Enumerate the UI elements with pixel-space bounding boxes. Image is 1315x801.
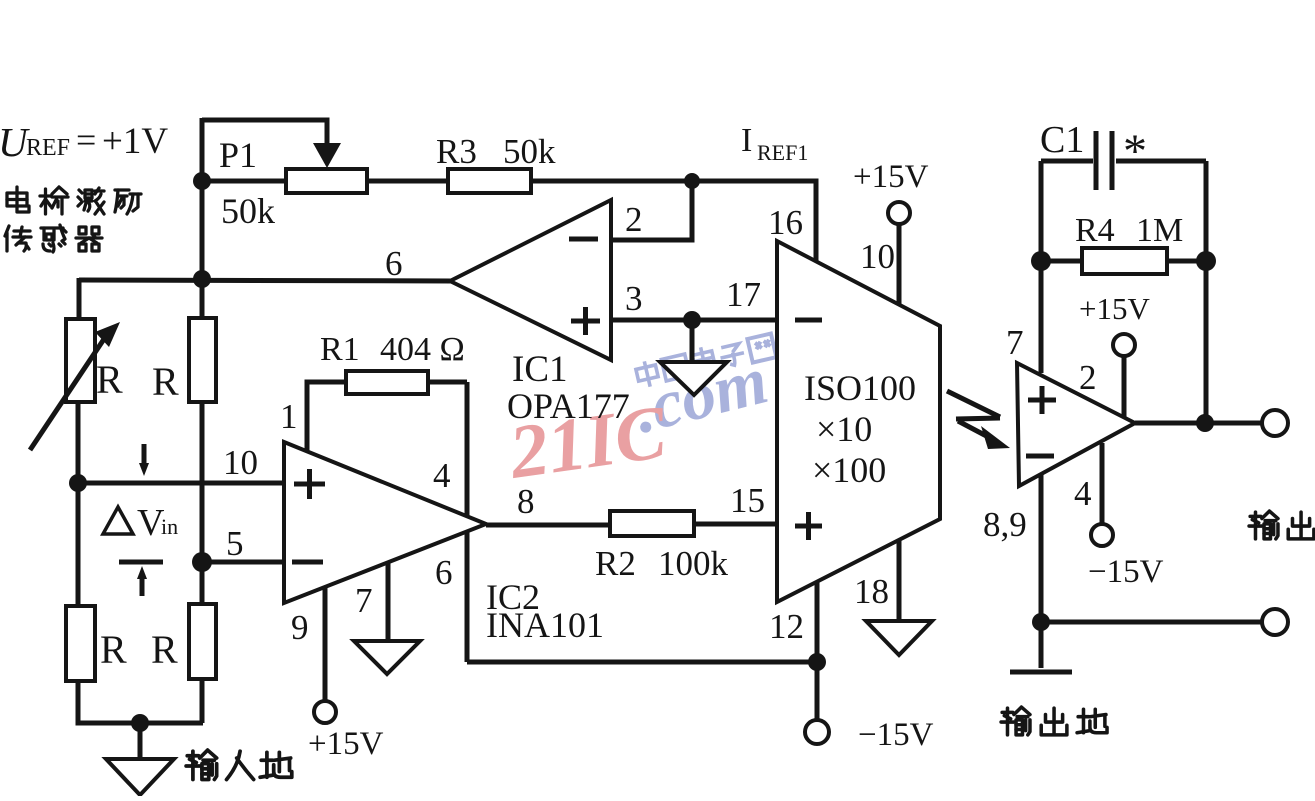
- node pin 3 ground junction: [683, 311, 701, 329]
- svg-text:7: 7: [355, 581, 373, 620]
- +15V terminal circle for ISO100 pin 10: [888, 202, 910, 224]
- svg-text:R4: R4: [1075, 212, 1115, 249]
- svg-text:404 Ω: 404 Ω: [380, 331, 465, 368]
- wire right feedback vertical to output node: [1204, 161, 1209, 423]
- svg-text:9: 9: [291, 608, 309, 647]
- wire IC2 pin 7 to ground: [386, 562, 391, 641]
- wire left bridge leg: [76, 402, 81, 607]
- svg-text:+15V: +15V: [308, 726, 384, 762]
- svg-text:=: =: [76, 120, 96, 160]
- svg-text:×10: ×10: [816, 409, 872, 449]
- wire C1 left lead: [1041, 159, 1093, 164]
- wire IC1 pin 3 to ISO100 pin 17: [611, 318, 778, 323]
- svg-text:6: 6: [385, 244, 403, 283]
- svg-text:4: 4: [433, 456, 451, 495]
- svg-text:OPA177: OPA177: [507, 386, 630, 426]
- wire +15V terminal to ISO100 pin 10: [897, 225, 902, 306]
- capacitor C1 plates: [1096, 131, 1112, 190]
- svg-text:8: 8: [517, 482, 535, 521]
- resistor R1 body: [346, 371, 428, 394]
- input ground symbol: [106, 759, 174, 795]
- wire top loop from UREF node to potentiometer arrow: [202, 120, 327, 146]
- wire ground stub at pin 3 node: [690, 320, 695, 362]
- wire mid rail left corner down to variable resistor: [77, 278, 82, 322]
- svg-text:R2: R2: [595, 544, 636, 583]
- svg-text:R: R: [96, 357, 123, 402]
- node UREF at potentiometer rail: [193, 172, 211, 190]
- svg-text:REF1: REF1: [757, 140, 808, 165]
- ground symbol at IC2 pin 7: [354, 641, 420, 674]
- wire ISO100 pin 18 to ground: [897, 538, 902, 621]
- node R4 rail left: [1031, 251, 1051, 271]
- node input ground junction: [131, 714, 149, 732]
- bridge resistor top right body: [189, 318, 216, 402]
- wire right bridge leg lower: [200, 679, 205, 723]
- svg-text:4: 4: [1074, 474, 1092, 513]
- svg-text:+1V: +1V: [102, 121, 168, 162]
- resistor R2 body: [610, 511, 694, 536]
- svg-text:in: in: [161, 514, 178, 539]
- svg-text:50k: 50k: [221, 191, 275, 231]
- svg-text:R1: R1: [320, 331, 360, 368]
- wire IC2 output pin 8 to R2: [486, 523, 610, 528]
- wire bottom rail IC2 to ISO100 pin 12 node: [467, 660, 817, 665]
- output op-amp triangle: [1017, 363, 1135, 486]
- svg-text:−15V: −15V: [858, 717, 934, 753]
- svg-text:R3: R3: [436, 132, 477, 171]
- output terminal circle top: [1262, 410, 1288, 436]
- label chuanganqi (sensor): [5, 226, 31, 251]
- bridge variable resistor arrow: [30, 333, 108, 450]
- svg-text:15: 15: [730, 481, 765, 520]
- wire +15V terminal to op-amp pin 2: [1122, 357, 1127, 417]
- svg-text:8,9: 8,9: [983, 505, 1027, 544]
- delta-Vin down arrow: [142, 444, 147, 466]
- wire R1 right lead down to bottom rail: [465, 382, 470, 662]
- svg-text:18: 18: [854, 572, 889, 611]
- op-amp IC2 INA101 triangle: [284, 442, 486, 603]
- svg-text:7: 7: [1006, 323, 1024, 362]
- wire left feedback vertical to op-amp pin 7: [1039, 161, 1044, 373]
- op-amp IC2 minus input mark: [292, 560, 323, 565]
- svg-text:100k: 100k: [658, 544, 729, 583]
- wire R3 to corner and down to ISO100 pin 16: [531, 181, 816, 264]
- wire pot rail segment left: [202, 179, 286, 184]
- svg-text:10: 10: [223, 443, 258, 482]
- op-amp IC1 plus input mark: [571, 307, 600, 335]
- resistor R3 body: [448, 169, 531, 193]
- wire R1 left lead to IC2 pin 1: [307, 382, 346, 452]
- output terminal circle bottom: [1262, 609, 1288, 635]
- bridge resistor bottom right body: [189, 604, 216, 679]
- wire C1 right lead: [1116, 159, 1206, 164]
- node mid rail: [193, 270, 211, 288]
- wire pot to R3: [367, 179, 448, 184]
- svg-text:INA101: INA101: [486, 605, 604, 645]
- op-amp IC2 plus input mark: [294, 469, 325, 499]
- wire op-amp pins 8,9 down to output ground: [1039, 473, 1044, 668]
- +15V terminal circle at output op-amp pin 2: [1113, 334, 1135, 356]
- optocoupler light arrows between ISO100 and output op-amp: [947, 391, 1000, 417]
- svg-text:+15V: +15V: [1079, 291, 1150, 326]
- resistor R4 body: [1082, 248, 1167, 274]
- svg-text:50k: 50k: [503, 132, 556, 171]
- node bridge left output: [69, 474, 87, 492]
- node R4 rail right: [1196, 251, 1216, 271]
- wire R4 rail right: [1167, 259, 1206, 264]
- label delta Vin: [103, 507, 133, 534]
- svg-text:+15V: +15V: [853, 159, 929, 195]
- label shuchu (output): [1249, 511, 1278, 539]
- svg-text:12: 12: [769, 607, 804, 646]
- wire left vertical UREF rail: [200, 118, 205, 280]
- wire right bridge leg middle: [200, 402, 205, 605]
- +15V terminal circle at IC2 pin 9: [314, 701, 336, 723]
- delta-Vin up arrow: [140, 576, 145, 596]
- node bridge right output: [192, 552, 212, 572]
- wire left bridge leg lower: [78, 681, 203, 723]
- potentiometer P1 wiper arrow: [313, 143, 341, 168]
- wire op-amp pin 4 to -15V terminal: [1100, 443, 1105, 523]
- -15V terminal circle at ISO100 pin 12 rail: [805, 720, 829, 744]
- svg-text:×100: ×100: [812, 450, 886, 490]
- wire R2 to ISO100 pin 15: [694, 522, 778, 527]
- wire input ground stub: [138, 723, 143, 759]
- bridge resistor bottom left body: [66, 606, 95, 681]
- svg-text:5: 5: [226, 524, 244, 563]
- wire right bridge leg upper: [200, 278, 205, 319]
- node bottom rail -15V junction: [808, 653, 826, 671]
- svg-text:I: I: [741, 122, 752, 159]
- svg-text:R: R: [152, 359, 179, 404]
- ISO100 plus input mark: [795, 512, 822, 540]
- ISO100 minus input mark: [795, 318, 822, 323]
- node output junction: [1196, 414, 1214, 432]
- wire pin 2 of IC1 up to reference rail: [611, 181, 692, 240]
- wire R1 body leads: [428, 380, 467, 385]
- svg-text:1M: 1M: [1136, 212, 1183, 249]
- svg-text:R: R: [100, 627, 127, 672]
- svg-text:3: 3: [625, 279, 643, 318]
- ground symbol at IC1 pin 3 node: [660, 362, 727, 395]
- label dianqiao jili (bridge excitation): [7, 187, 29, 212]
- svg-text:2: 2: [625, 200, 643, 239]
- ground symbol at ISO100 pin 18: [866, 621, 932, 655]
- bridge variable resistor body: [66, 319, 95, 402]
- wire output ground rail to terminal: [1041, 620, 1262, 625]
- output ground bar: [1010, 670, 1072, 675]
- svg-text:6: 6: [435, 553, 453, 592]
- wire R4 rail left: [1041, 259, 1082, 264]
- node output ground junction: [1032, 613, 1050, 631]
- svg-text:R: R: [151, 627, 178, 672]
- svg-text:ISO100: ISO100: [804, 368, 916, 408]
- wire node down to -15V terminal: [815, 662, 820, 720]
- wire op-amp output to terminal: [1135, 421, 1262, 426]
- op-amp IC1 minus input mark: [569, 237, 598, 242]
- wire bridge node to IC2 pin 10: [78, 481, 284, 486]
- wire IC2 pin 9 to +15V terminal: [323, 587, 328, 701]
- node reference rail at pin 2: [684, 173, 700, 189]
- svg-text:P1: P1: [219, 135, 257, 175]
- watermark blue chinese characters: [634, 331, 776, 389]
- output op-amp plus input mark: [1028, 386, 1056, 414]
- svg-text:2: 2: [1079, 358, 1097, 397]
- svg-text:IC1: IC1: [512, 349, 568, 390]
- op-amp IC1 OPA177 triangle: [450, 200, 611, 360]
- isolation amplifier ISO100 body: [777, 241, 940, 602]
- label shuchudi (output ground): [1001, 707, 1030, 735]
- svg-text:16: 16: [768, 203, 803, 242]
- wire bridge node to IC2 pin 5: [202, 560, 284, 565]
- svg-text:17: 17: [726, 275, 761, 314]
- svg-text:−15V: −15V: [1088, 554, 1164, 590]
- wire mid rail node to IC1 output pin 6: [79, 280, 452, 281]
- svg-text:10: 10: [860, 237, 895, 276]
- -15V terminal circle at output op-amp pin 4: [1091, 524, 1113, 546]
- delta-Vin bar: [119, 560, 163, 565]
- label shurudi (input ground): [186, 750, 217, 779]
- svg-text:C1: C1: [1040, 119, 1084, 161]
- output op-amp minus input mark: [1026, 454, 1054, 459]
- potentiometer P1 body: [286, 169, 367, 193]
- wire ISO100 pin 12 down to bottom rail: [815, 581, 820, 662]
- svg-text:REF: REF: [26, 135, 70, 161]
- svg-text:*: *: [1123, 125, 1147, 178]
- svg-text:1: 1: [280, 397, 298, 436]
